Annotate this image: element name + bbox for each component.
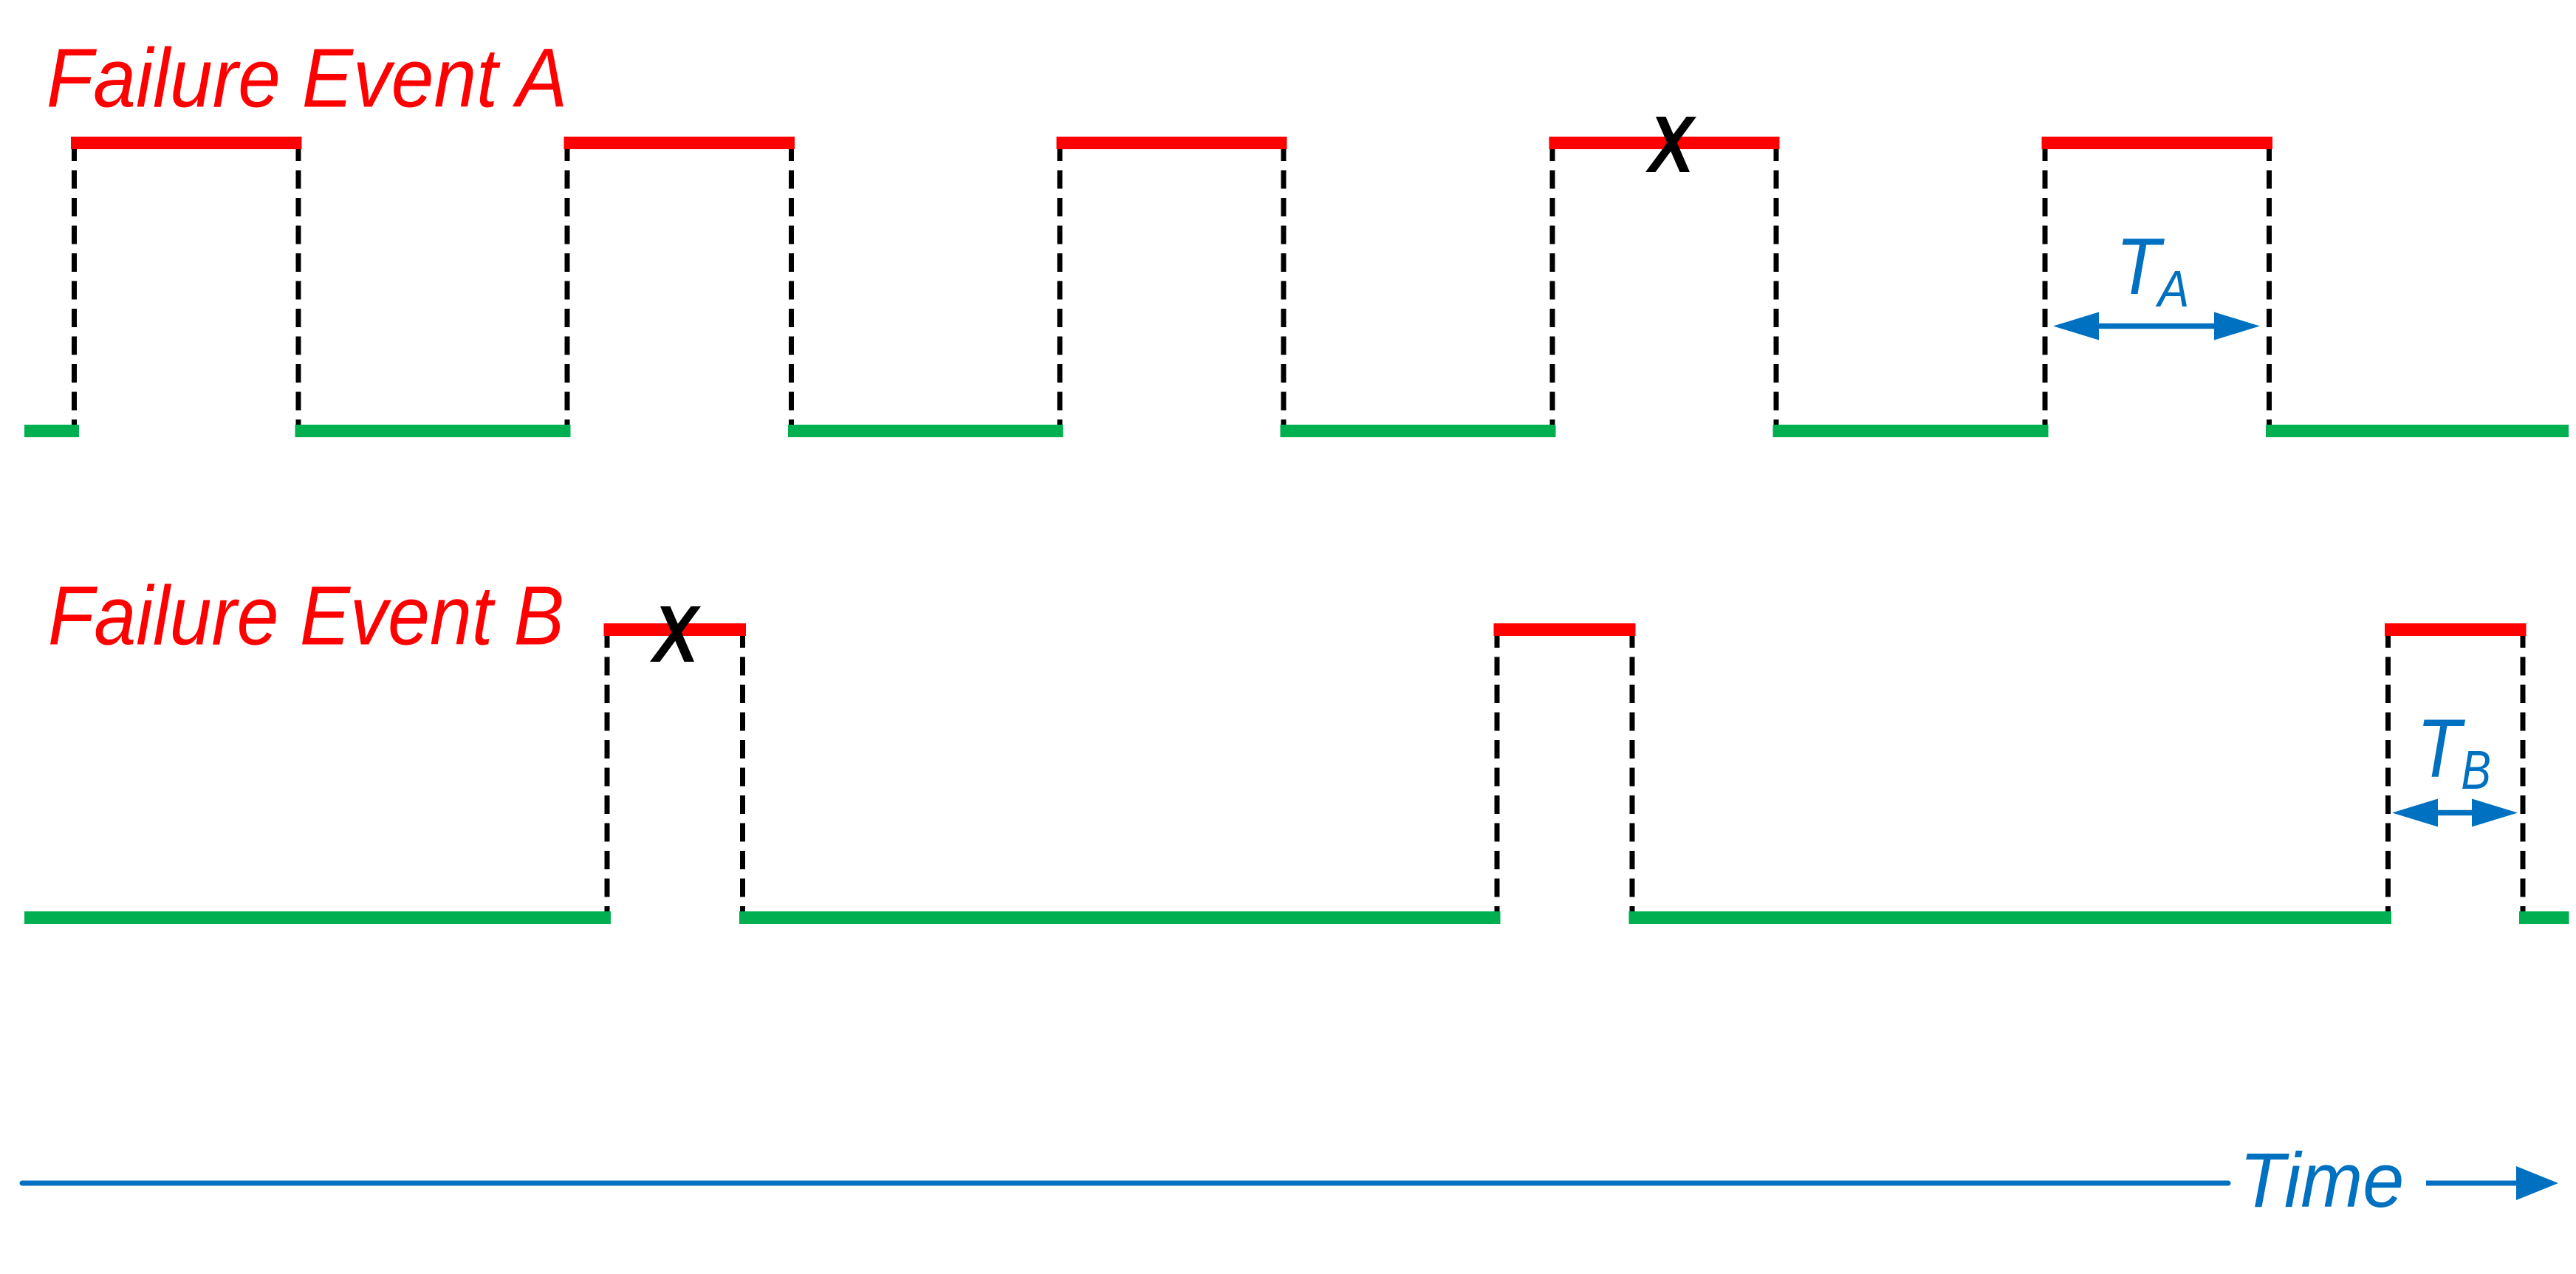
- waveform B: dashed transition lines: [607, 636, 2523, 911]
- waveform B: red pulse 1: [604, 623, 747, 636]
- label: Failure Event A: [47, 31, 567, 124]
- waveform B: red pulse 3: [2385, 623, 2527, 636]
- waveform B: green low segment 2: [739, 911, 1501, 924]
- waveform B: green low segment 4: [2519, 911, 2569, 924]
- waveform B: green low segment 3: [1629, 911, 2392, 924]
- waveform A: red high segment 3: [1057, 137, 1287, 149]
- waveform B: green low segment 1: [24, 911, 611, 924]
- waveform A: red high segment 5: [2042, 137, 2273, 149]
- waveform A: red high segment 4: [1549, 137, 1780, 149]
- time axis arrowhead: [2516, 1166, 2558, 1200]
- waveform A: red high segment 1: [71, 137, 302, 149]
- double arrow T_A: [2053, 312, 2260, 340]
- label T_A: [2116, 222, 2189, 318]
- svg-text:T: T: [2416, 703, 2465, 795]
- label T_B: [2416, 703, 2491, 801]
- svg-text:Failure Event A: Failure Event A: [47, 31, 567, 124]
- time axis line (right of label): [2426, 1181, 2520, 1186]
- waveform A: green low segment 0: [24, 425, 79, 437]
- label: Time: [2239, 1137, 2404, 1223]
- svg-text:Failure Event B: Failure Event B: [48, 569, 564, 662]
- waveform A: red high segment 2: [564, 137, 795, 149]
- waveform A: green low segment 1: [295, 425, 571, 437]
- svg-text:Time: Time: [2239, 1137, 2404, 1223]
- waveform A: green low segment 4: [1773, 425, 2049, 437]
- waveform A: dashed transition lines: [75, 149, 2270, 425]
- svg-text:B: B: [2461, 740, 2491, 801]
- double arrow T_B: [2392, 799, 2518, 827]
- waveform A: green low segment 5: [2266, 425, 2569, 437]
- failure mark X on waveform B pulse 1: [650, 606, 701, 662]
- failure mark X on waveform A segment 4: [1645, 117, 1696, 172]
- waveform A: green low segment 2: [788, 425, 1063, 437]
- svg-text:A: A: [2155, 260, 2189, 318]
- waveform B: red pulse 2: [1494, 623, 1636, 636]
- time axis line (left of label): [22, 1181, 2228, 1186]
- label: Failure Event B: [48, 569, 564, 662]
- waveform A: green low segment 3: [1281, 425, 1556, 437]
